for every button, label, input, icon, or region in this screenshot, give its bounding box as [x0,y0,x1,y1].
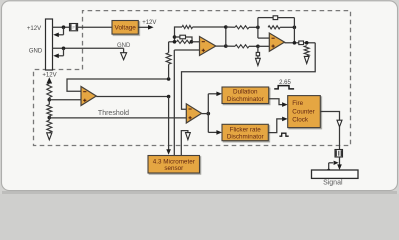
wire follower output [96,96,168,98]
ground U2 plus [256,46,261,65]
node U2 fb [293,26,297,30]
wire to U1 minus [191,41,199,43]
wire signal branch [329,161,339,171]
waveform pulse 2 [279,133,288,136]
wire U2 fb vertical [293,18,295,43]
op-amp U1 [200,37,216,56]
fire counter clock box [288,96,321,128]
svg-text:Flicker rate: Flicker rate [230,126,262,133]
wire feedback left [175,27,183,42]
svg-text:Dullation: Dullation [233,89,258,96]
wire U1 feedback vertical [225,27,227,46]
wire flicker to fire counter [268,117,287,133]
capacitor C3 [299,41,304,45]
wire fuse to voltage box [78,26,112,28]
node U2 plus [256,45,260,49]
svg-text:GND: GND [117,43,131,49]
wire GND from connector [53,47,124,49]
wire return arrow upper [53,27,63,37]
svg-text:+12V: +12V [142,20,156,26]
wire follower feedback [67,79,169,91]
resistor R3 [226,26,258,29]
resistor R2 [177,40,191,43]
svg-text:Signal: Signal [323,180,343,187]
wire R8 lower [168,64,170,79]
svg-text:Counter: Counter [292,108,314,115]
resistor R6 [47,105,52,117]
arrow +12V output [148,25,154,30]
node signal branch [327,169,331,173]
resistor R4 feedback [268,26,280,29]
node load [305,41,309,45]
pulsation discriminator box [222,87,269,104]
svg-text:+12V: +12V [27,26,41,32]
node minus right [190,40,194,44]
label Threshold [98,110,129,117]
node U1 out [224,44,228,48]
svg-text:Dischminator: Dischminator [227,96,264,103]
op-amp U2 [269,33,284,51]
wire U2 output [285,42,299,44]
wire sensor vent [181,131,188,156]
wire U4 out branches [202,94,209,133]
label +12V rail [142,20,156,26]
wire fire counter output [320,112,339,121]
wire return arrow lower [53,48,63,58]
node +12V wire [62,25,66,29]
wire to follower + [49,98,81,105]
connector J1 [46,19,53,70]
label Signal [323,180,343,187]
wire threshold [49,116,186,120]
resistor R1 feedback [182,25,193,28]
op-amp U3 follower [81,87,96,106]
wire to isolator [339,127,341,150]
resistor R10 [304,46,309,56]
resistor R8 [166,53,171,65]
wire sensor signal [174,50,199,156]
wire isolator to bar [339,157,341,165]
open arrow sensor vent [186,133,191,140]
wire to U2 plus [258,45,269,47]
svg-text:Dischminator: Dischminator [227,134,264,141]
resistor R9 [226,45,258,48]
node U1 fb top [224,25,228,29]
wire +12V output [138,26,148,28]
label +12V divider [42,73,56,79]
label 2.65 [279,80,291,86]
flicker rate discriminator box [222,124,268,140]
ground divider [47,133,52,140]
signal bar [312,170,359,178]
svg-text:Voltage: Voltage [115,25,137,32]
wire pulsation to fire counter [269,99,288,107]
node threshold [48,116,52,120]
arrow into sensor [166,149,171,155]
wire sensor drive [168,97,170,150]
node U2 in top [256,26,260,30]
op-amp U4 comparator [186,104,201,123]
capacitor C1 [175,35,193,42]
label GND input [29,49,43,55]
fuse F1 [70,24,78,31]
svg-text:sensor: sensor [164,165,183,172]
wire R4 right [280,26,294,28]
svg-text:Clock: Clock [292,117,309,124]
capacitor C2 loop [258,16,295,20]
node follower output [167,95,171,99]
svg-text:GND: GND [29,49,43,55]
svg-text:+12V: +12V [42,73,56,79]
wire U2 to comparator [182,43,316,109]
wire after C3 [304,42,316,44]
dashed enclosure border [34,11,351,146]
open arrow output [337,120,342,127]
arrow into signal bar [337,164,342,170]
sensor box [148,156,200,174]
voltage regulator U5 [112,21,138,35]
node U4 out [207,112,211,116]
wire U1 output [216,45,226,47]
node GND wire [62,47,66,51]
svg-text:F: F [72,25,75,30]
svg-text:Threshold: Threshold [98,110,129,117]
wire to pulsation box [208,92,222,97]
wire +12V from connector [53,26,70,28]
node follower feedback [167,77,171,81]
svg-text:Fire: Fire [292,100,303,107]
wire to flicker box [208,130,222,135]
ground R10 [304,56,309,63]
resistor R5 [47,84,52,98]
node minus left [173,40,177,44]
isolator X1 [335,150,343,158]
wire U2 minus [258,18,269,38]
waveform pulse 1 [274,86,294,89]
label GND rail [117,43,131,49]
ground GND symbol [121,48,127,59]
label +12V input [27,26,41,32]
node U2 out [293,41,297,45]
resistor R7 [47,120,52,132]
wire feedback right [193,26,226,28]
wire R8 to follower [169,42,175,53]
node divider upper [48,98,52,102]
node cap upper A [173,35,177,39]
supply arrow +12V [47,77,53,83]
